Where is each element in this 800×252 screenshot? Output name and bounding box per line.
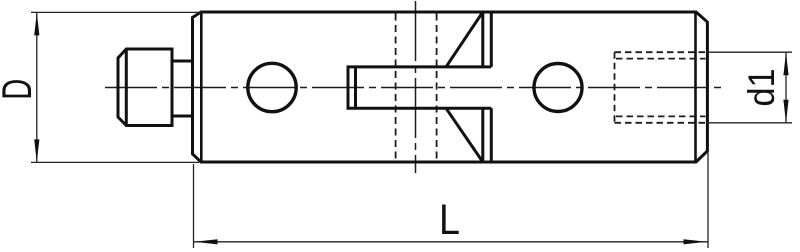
threaded hole minor dia bottom bbox=[616, 115, 706, 117]
notch diagonal top bbox=[446, 12, 483, 67]
notch vertical 2 bottom bbox=[490, 108, 493, 162]
D extension line bottom bbox=[31, 161, 199, 163]
d1 extension line top bbox=[707, 51, 792, 53]
L arrow right bbox=[684, 239, 707, 244]
threaded hole major dia bottom bbox=[615, 122, 706, 124]
stud chamfer line bbox=[125, 49, 128, 126]
horizontal centerline bbox=[105, 87, 721, 89]
body right chamfer line bbox=[694, 12, 697, 162]
threaded stud head bbox=[118, 49, 172, 126]
D dimension line bbox=[36, 12, 38, 162]
stud neck bottom bbox=[172, 115, 192, 118]
notch vertical 1 bottom bbox=[481, 108, 484, 162]
hidden hole line right bbox=[436, 14, 438, 161]
D extension line top bbox=[31, 11, 202, 13]
notch vertical 1 top bbox=[481, 12, 484, 67]
notch diagonal bottom bbox=[446, 108, 483, 162]
d1 arrow up bbox=[783, 52, 788, 75]
D arrow down bbox=[34, 139, 39, 162]
threaded hole major dia top bbox=[615, 51, 706, 53]
notch vertical 2 top bbox=[490, 12, 493, 67]
left cross hole bbox=[248, 63, 296, 111]
L extension line left bbox=[193, 164, 195, 248]
body left chamfer line bbox=[200, 12, 203, 162]
d1 arrow down bbox=[783, 100, 788, 123]
body outline bbox=[193, 12, 708, 162]
right cross hole bbox=[534, 64, 582, 112]
L dimension line bbox=[194, 241, 708, 243]
svg-text:d1: d1 bbox=[741, 69, 782, 107]
threaded hole minor dia top bbox=[616, 58, 706, 60]
d1 dimension line bbox=[785, 52, 787, 123]
slot inner end line bbox=[354, 67, 357, 108]
D arrow up bbox=[34, 12, 39, 35]
L extension line right bbox=[707, 152, 709, 248]
L arrow left bbox=[195, 239, 218, 244]
svg-text:D: D bbox=[0, 79, 40, 100]
slot outline bbox=[348, 67, 491, 108]
threaded hole end line bbox=[614, 52, 616, 123]
svg-text:L: L bbox=[439, 196, 460, 244]
hidden hole line left bbox=[395, 14, 397, 161]
vertical centerline bbox=[415, 1, 417, 173]
stud neck top bbox=[172, 60, 192, 63]
d1 extension line bottom bbox=[707, 122, 792, 124]
